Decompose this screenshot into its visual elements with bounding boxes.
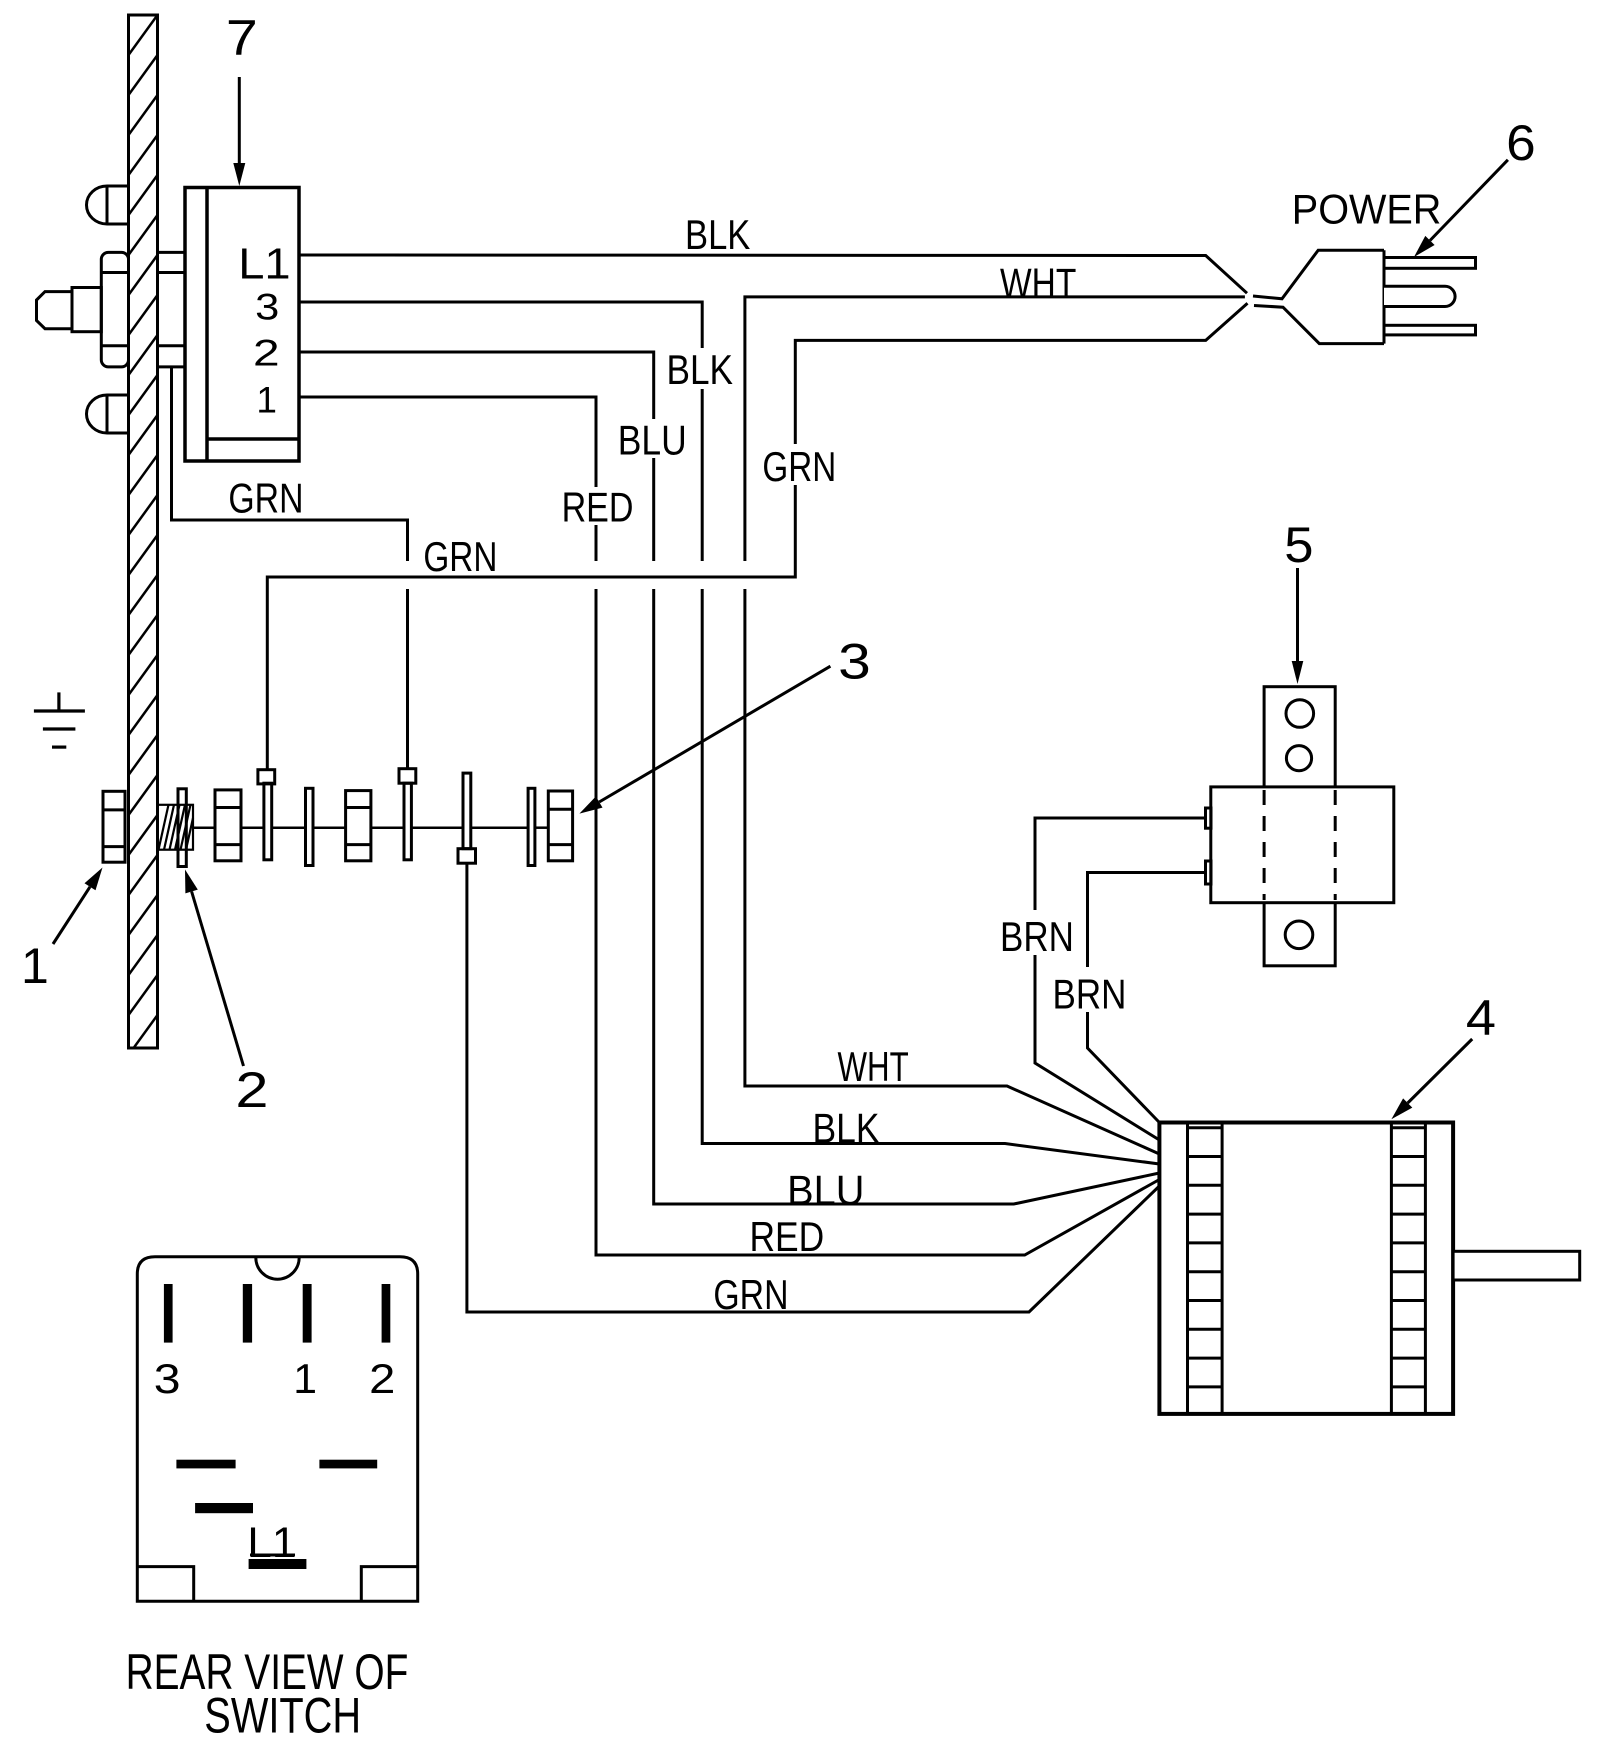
capacitor body [1211,787,1394,903]
wire BLK from L1 to cord [299,255,1247,293]
rear view bottom notch right [361,1567,417,1602]
switch mounting bolt tip [37,292,73,329]
svg-text:2: 2 [235,1062,268,1118]
rear view switch body [137,1257,417,1602]
svg-text:GRN: GRN [423,534,497,581]
wire WHT from cord to motor [745,297,1245,561]
motor shaft [1453,1251,1580,1280]
svg-text:GRN: GRN [713,1273,788,1319]
capacitor bracket 5 [1264,687,1335,966]
svg-text:WHT: WHT [1000,261,1076,307]
arrow 1 [53,868,103,945]
wire GRN from switch frame to shaft wafer [172,367,408,561]
rear view bottom notch left [137,1567,193,1602]
plug 6 face [1383,250,1386,343]
arrow 4 [1391,1039,1472,1119]
svg-text:L1: L1 [238,239,290,288]
wire BRN upper [1035,818,1206,1140]
panel (hatched mounting plate) [129,15,158,1095]
arrow 5 [1292,568,1304,684]
arrow 2 [185,870,244,1067]
panel stud top [87,186,129,224]
shaft disc 5 [528,788,535,865]
motor left winding band [1188,1123,1223,1414]
svg-text:L1: L1 [247,1519,296,1566]
capacitor terminal upper [1206,808,1212,828]
wire RED from terminal 1 to motor [299,397,596,561]
caption [126,1644,409,1743]
capacitor hidden bracket edges (dashed) [1264,790,1335,900]
rear view contact bars [176,1460,235,1469]
shaft washer 2 [178,789,186,867]
svg-text:1: 1 [256,380,277,421]
shaft disc 4 with bottom terminal [458,773,476,863]
svg-text:BLK: BLK [685,212,751,259]
svg-text:4: 4 [1466,991,1496,1047]
arrow 3 [579,666,830,813]
arrow 7 [233,77,245,186]
svg-text:BLU: BLU [618,418,687,464]
svg-text:BLU: BLU [787,1166,864,1213]
panel stud bottom [87,395,129,433]
shaft disc 2 [306,788,314,865]
svg-text:3: 3 [154,1355,181,1402]
svg-text:7: 7 [226,10,258,66]
switch terminal labels [238,239,290,421]
plug prong middle (round) [1384,286,1455,306]
label masks [558,348,1128,1012]
svg-text:2: 2 [369,1356,395,1402]
svg-text:1: 1 [21,938,49,994]
svg-text:2: 2 [253,333,280,375]
wire BRN lower [1088,873,1206,1123]
svg-text:POWER: POWER [1292,186,1442,233]
shaft wheel 1 [215,790,241,861]
switch mounting nut [101,252,128,367]
arrow 6 [1414,160,1508,257]
svg-text:BRN: BRN [1000,914,1074,961]
rear view pin labels [154,1355,396,1567]
shaft center line [193,826,548,829]
rear view pins (solid) [164,1284,390,1569]
ground symbol [34,692,85,747]
svg-text:WHT: WHT [838,1042,909,1090]
svg-text:RED: RED [562,484,634,531]
svg-text:3: 3 [838,633,871,689]
svg-text:SWITCH: SWITCH [204,1687,361,1743]
svg-text:GRN: GRN [762,444,836,491]
plug prong top [1384,258,1476,269]
svg-text:RED: RED [749,1214,824,1260]
motor right winding band [1391,1123,1425,1414]
switch 7 body [185,188,299,462]
svg-text:BLK: BLK [666,347,733,394]
svg-text:6: 6 [1506,115,1536,171]
capacitor mounting hole second [1286,746,1311,771]
capacitor terminal lower [1206,861,1212,884]
shaft wafer 3 with terminal [399,769,416,860]
power cord twist neck top [1253,250,1384,299]
wire BLU from terminal 2 to motor [299,352,654,561]
shaft nut 1 [103,791,125,862]
capacitor mounting hole top [1286,700,1314,728]
svg-text:GRN: GRN [228,476,303,522]
svg-text:BLK: BLK [812,1106,879,1152]
shaft end cam 3 [548,791,572,861]
wire GRN from shaft wafer to motor [467,863,1160,1312]
switch mounting bolt stem [72,288,101,332]
motor 4 body [1159,1123,1453,1414]
plug prong bottom [1384,325,1476,335]
shaft bushing 2 (threaded) [158,805,194,850]
capacitor mounting hole bottom [1285,921,1313,949]
rear view top hole [256,1258,299,1280]
power cord twist neck bottom [1254,306,1384,344]
svg-text:5: 5 [1284,517,1313,573]
shaft wheel 2 [346,791,371,861]
switch bushing behind panel [158,252,186,367]
shaft wafer 1 with terminal [258,770,275,860]
wire BLK from terminal 3 to motor [299,302,702,561]
svg-text:BRN: BRN [1053,972,1127,1019]
svg-text:1: 1 [293,1355,317,1402]
wire GRN from cord to ground network [267,303,1247,770]
svg-text:3: 3 [255,286,279,328]
